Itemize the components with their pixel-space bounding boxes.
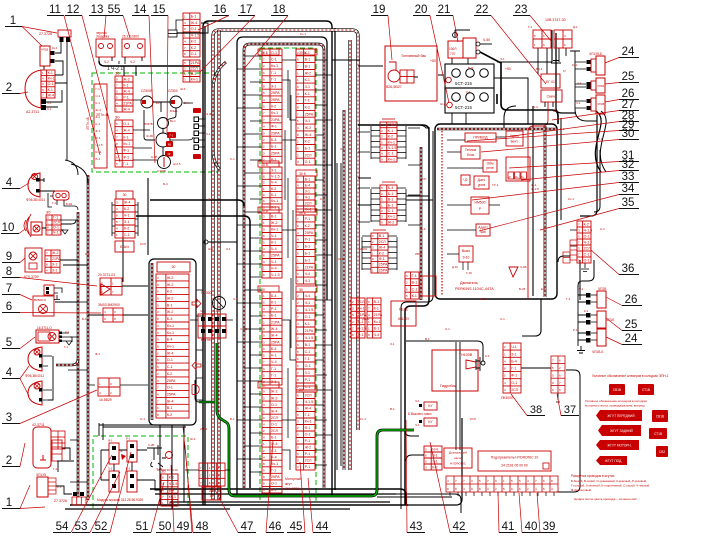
svg-text:Кч-1: Кч-1	[388, 140, 395, 144]
svg-text:О-1: О-1	[584, 234, 590, 238]
svg-text:З-1: З-1	[305, 189, 310, 193]
svg-text:Р-1: Р-1	[305, 439, 311, 443]
svg-text:25РА: 25РА	[305, 112, 314, 116]
svg-text:30: 30	[172, 265, 176, 269]
svg-text:Г-1: Г-1	[53, 216, 58, 220]
svg-text:366.3723: 366.3723	[285, 487, 299, 491]
svg-text:В-1: В-1	[305, 58, 311, 62]
svg-text:406-ОУ: 406-ОУ	[398, 317, 410, 321]
svg-text:Ч-1: Ч-1	[200, 309, 205, 313]
svg-text:30: 30	[622, 128, 635, 140]
svg-text:К-1: К-1	[48, 88, 53, 92]
svg-text:14: 14	[134, 4, 147, 16]
svg-text:21РА: 21РА	[362, 317, 369, 321]
svg-text:К-2: К-2	[432, 465, 437, 469]
svg-text:Ж-2: Ж-2	[208, 247, 214, 251]
svg-text:30 5: 30 5	[261, 163, 268, 167]
svg-text:Ч-1.5: Ч-1.5	[388, 146, 397, 150]
svg-text:С-1: С-1	[388, 209, 394, 213]
svg-text:ФЭ6,3В/4011: ФЭ6,3В/4011	[25, 374, 44, 378]
svg-text:30: 30	[161, 469, 166, 474]
svg-text:Ж-2: Ж-2	[167, 310, 174, 314]
svg-text:Е-1: Е-1	[541, 287, 546, 291]
svg-text:18: 18	[273, 4, 286, 16]
svg-text:Ч-1.5: Ч-1.5	[305, 336, 314, 340]
svg-text:Ж-4: Ж-4	[167, 399, 174, 403]
svg-text:ФЭ6,3Б/4011: ФЭ6,3Б/4011	[26, 198, 45, 202]
svg-text:О-1: О-1	[305, 364, 311, 368]
svg-text:С-1: С-1	[412, 287, 418, 291]
svg-text:К-1: К-1	[96, 101, 101, 105]
svg-text:Ч-1.5: Ч-1.5	[169, 482, 178, 486]
svg-text:К-4: К-4	[466, 90, 471, 94]
svg-text:С-1: С-1	[124, 233, 130, 237]
svg-text:41: 41	[502, 521, 515, 533]
svg-text:В-1: В-1	[305, 65, 311, 69]
svg-text:О-1: О-1	[584, 258, 590, 262]
svg-text:В-1: В-1	[425, 337, 430, 341]
svg-text:О-1: О-1	[123, 122, 129, 126]
svg-text:Ж-4Б: Ж-4Б	[146, 134, 153, 138]
svg-text:Б-4: Б-4	[271, 138, 277, 142]
svg-text:В-1: В-1	[271, 215, 277, 219]
svg-text:30 6: 30 6	[261, 209, 268, 213]
svg-text:6: 6	[6, 301, 12, 313]
svg-text:Ж-2: Ж-2	[305, 126, 312, 130]
svg-text:А2.3711: А2.3711	[26, 110, 39, 114]
svg-text:23: 23	[515, 4, 528, 16]
svg-text:Ч-2: Ч-2	[104, 60, 109, 64]
svg-text:О-1: О-1	[271, 51, 277, 55]
svg-text:37: 37	[564, 404, 576, 416]
svg-text:Ч-1.5: Ч-1.5	[358, 327, 367, 331]
svg-text:К-2: К-2	[191, 46, 196, 50]
svg-text:Кч-1: Кч-1	[271, 64, 278, 68]
svg-text:Ж-2,5: Ж-2,5	[173, 162, 181, 166]
svg-text:О-1: О-1	[191, 52, 197, 56]
svg-text:30 5: 30 5	[299, 172, 306, 176]
svg-text:Г-1: Г-1	[53, 467, 58, 471]
svg-text:В-1: В-1	[271, 488, 277, 492]
svg-text:Ф-1: Ф-1	[271, 125, 277, 129]
svg-text:Ж-4: Ж-4	[305, 407, 312, 411]
svg-text:Г-1: Г-1	[52, 201, 56, 205]
svg-text:Б-1: Б-1	[305, 245, 311, 249]
svg-text:33: 33	[622, 171, 635, 183]
svg-text:К-1: К-1	[584, 309, 589, 313]
svg-text:Б-1: Б-1	[82, 317, 87, 321]
svg-text:Кч-1: Кч-1	[271, 111, 278, 115]
svg-text:Цифра после цвета провода— сеч: Цифра после цвета провода— сечение мм²	[574, 497, 637, 501]
svg-text:З-1: З-1	[305, 85, 310, 89]
svg-text:ПС300: ПС300	[201, 291, 212, 295]
svg-text:О-1: О-1	[167, 358, 173, 362]
svg-text:ТН100В: ТН100В	[459, 353, 473, 357]
svg-text:Ж-4: Ж-4	[379, 246, 386, 250]
svg-text:2СЛ: 2СЛ	[191, 67, 198, 71]
svg-text:З-1: З-1	[271, 168, 276, 172]
svg-text:В-1: В-1	[191, 72, 197, 76]
svg-text:1: 1	[10, 15, 16, 27]
svg-text:Ч-1: Ч-1	[415, 423, 420, 427]
svg-text:Ф-1: Ф-1	[379, 257, 385, 261]
svg-text:1Р: 1Р	[167, 152, 170, 156]
svg-text:Ч-4: Ч-4	[305, 294, 311, 298]
svg-text:Ч-1: Ч-1	[271, 260, 277, 264]
svg-text:21РА: 21РА	[374, 313, 383, 317]
svg-text:24: 24	[622, 46, 635, 58]
svg-text:Б-4: Б-4	[271, 294, 277, 298]
svg-text:25РА: 25РА	[271, 91, 280, 95]
svg-text:Ж-4: Ж-4	[271, 442, 278, 446]
svg-text:Ч-0Б: Ч-0Б	[520, 265, 527, 269]
svg-text:25РА: 25РА	[388, 123, 397, 127]
svg-text:Д-1: Д-1	[573, 25, 578, 29]
svg-text:СЛ300: СЛ300	[168, 89, 178, 93]
svg-text:Ж-4: Ж-4	[96, 108, 102, 112]
svg-text:ЖГУТ ПОД.: ЖГУТ ПОД.	[605, 459, 622, 463]
svg-text:16: 16	[214, 4, 227, 16]
svg-text:Р-1: Р-1	[305, 217, 311, 221]
svg-text:БГ 01: БГ 01	[546, 80, 555, 84]
svg-text:К-2: К-2	[167, 372, 172, 376]
svg-text:Г-1: Г-1	[305, 413, 310, 417]
svg-text:В-1: В-1	[167, 406, 173, 410]
svg-text:Ч-1: Ч-1	[124, 214, 130, 218]
svg-text:Ч-1.5: Ч-1.5	[53, 231, 62, 235]
svg-text:СЛ300Р: СЛ300Р	[141, 89, 153, 93]
svg-text:Ч-1.5: Ч-1.5	[271, 175, 280, 179]
svg-text:Ф-1: Ф-1	[95, 352, 100, 356]
svg-text:Ж-4: Ж-4	[271, 409, 278, 413]
svg-text:К-1: К-1	[305, 92, 310, 96]
svg-text:satl: satl	[480, 230, 486, 234]
svg-text:Ч-2: Ч-2	[130, 60, 135, 64]
svg-text:Г-1: Г-1	[123, 162, 128, 166]
svg-text:Кч-1: Кч-1	[167, 345, 174, 349]
svg-text:47: 47	[241, 521, 254, 533]
svg-text:25: 25	[625, 319, 638, 331]
svg-text:З-1: З-1	[108, 467, 113, 471]
svg-text:4: 4	[6, 367, 13, 379]
svg-text:Ч-4: Ч-4	[432, 447, 438, 451]
svg-text:9: 9	[6, 251, 12, 263]
svg-text:Кч-1: Кч-1	[388, 157, 395, 161]
svg-text:СВ1В: СВ1В	[613, 388, 621, 392]
svg-text:Кч-1: Кч-1	[358, 307, 365, 311]
svg-text:К-2: К-2	[85, 252, 90, 256]
svg-text:2СЛ: 2СЛ	[358, 300, 365, 304]
svg-text:Ж-2: Ж-2	[271, 390, 278, 394]
svg-text:Б-Д: Б-Д	[468, 66, 473, 70]
svg-text:2СЛ: 2СЛ	[305, 394, 312, 398]
svg-text:О-1: О-1	[47, 107, 52, 111]
svg-text:З-1: З-1	[52, 263, 57, 267]
svg-text:З-1: З-1	[340, 147, 345, 151]
svg-text:53: 53	[75, 521, 88, 533]
svg-text:Ж-2: Ж-2	[440, 102, 446, 106]
svg-text:Б-4: Б-4	[167, 338, 173, 342]
svg-text:Двигатель: Двигатель	[460, 281, 478, 285]
svg-text:30: 30	[299, 388, 303, 392]
svg-text:С-1: С-1	[445, 327, 450, 331]
svg-text:Ф-фиолетовый: Ф-фиолетовый	[571, 488, 591, 492]
svg-text:К-2: К-2	[320, 197, 325, 201]
svg-text:22: 22	[476, 4, 489, 16]
svg-text:26.3710300: 26.3710300	[122, 35, 139, 39]
svg-text:Кч-1: Кч-1	[167, 331, 174, 335]
svg-text:К-2: К-2	[167, 290, 172, 294]
svg-text:34: 34	[622, 183, 635, 195]
svg-text:42: 42	[453, 521, 466, 533]
svg-text:ВК508-О: ВК508-О	[34, 298, 47, 302]
svg-text:Б-1Б: Б-1Б	[66, 202, 72, 206]
svg-text:Ч-50: Ч-50	[483, 38, 490, 42]
svg-text:25РА: 25РА	[271, 131, 280, 135]
svg-text:35: 35	[622, 197, 635, 209]
svg-text:В-1: В-1	[305, 343, 311, 347]
svg-text:21: 21	[438, 4, 451, 16]
svg-text:Г-1: Г-1	[271, 71, 276, 75]
svg-text:Б-1: Б-1	[271, 436, 277, 440]
svg-text:ЧП1Б: ЧП1Б	[597, 84, 604, 88]
svg-text:Б-4: Б-4	[553, 109, 558, 113]
svg-text:Ж-4: Ж-4	[180, 87, 186, 91]
svg-text:Ч-1: Ч-1	[206, 132, 211, 136]
svg-text:К-1: К-1	[65, 330, 70, 334]
svg-text:К-2: К-2	[124, 227, 129, 231]
svg-text:ЗПТн-4Б: ЗПТн-4Б	[86, 117, 90, 130]
svg-text:Кч-1: Кч-1	[52, 46, 58, 50]
svg-text:ЧП1В: ЧП1В	[597, 102, 604, 106]
svg-text:Кч-1: Кч-1	[374, 320, 381, 324]
svg-text:Ч-1.5: Ч-1.5	[96, 143, 104, 147]
svg-text:З-1: З-1	[305, 371, 310, 375]
svg-text:Ж-4: Ж-4	[271, 327, 278, 331]
svg-text:Ж-4: Ж-4	[271, 334, 278, 338]
svg-text:25РА: 25РА	[271, 475, 280, 479]
svg-text:49: 49	[177, 521, 190, 533]
svg-text:Ф-1: Ф-1	[358, 333, 364, 337]
svg-text:25РА: 25РА	[415, 252, 422, 256]
svg-text:1Г: 1Г	[563, 69, 567, 73]
svg-text:2СЛ: 2СЛ	[53, 221, 60, 225]
svg-text:В-1: В-1	[271, 158, 277, 162]
svg-text:АВ: АВ	[209, 489, 214, 493]
svg-text:Р-1: Р-1	[305, 452, 311, 456]
svg-text:Ч-1.5: Ч-1.5	[584, 228, 593, 232]
svg-text:Г-1: Г-1	[271, 374, 276, 378]
svg-text:Кч-1: Кч-1	[48, 77, 55, 81]
svg-text:Кч-1: Кч-1	[305, 420, 312, 424]
svg-text:Ч-1: Ч-1	[233, 297, 238, 301]
svg-text:насос: насос	[454, 456, 463, 460]
svg-text:Б-4: Б-4	[388, 186, 394, 190]
svg-text:Б-4: Б-4	[271, 347, 277, 351]
svg-text:Б-1: Б-1	[305, 258, 311, 262]
svg-text:25РА: 25РА	[167, 393, 176, 397]
svg-text:К-2: К-2	[191, 40, 196, 44]
svg-text:55: 55	[108, 4, 121, 16]
svg-text:Расцветка проводов в жгутах:: Расцветка проводов в жгутах:	[571, 474, 615, 478]
svg-text:16.3711-О: 16.3711-О	[37, 326, 52, 330]
svg-text:25РА: 25РА	[379, 263, 388, 267]
svg-text:10В.3747-30: 10В.3747-30	[545, 18, 566, 22]
svg-text:26: 26	[625, 294, 638, 306]
svg-text:О-1: О-1	[53, 226, 59, 230]
svg-text:Г-1: Г-1	[528, 25, 533, 29]
svg-text:Г-1: Г-1	[511, 367, 516, 371]
svg-text:К-2: К-2	[124, 207, 129, 211]
svg-text:РЕЛЕ: РЕЛЕ	[399, 308, 409, 312]
svg-text:44: 44	[316, 521, 329, 533]
svg-text:Ч-1: Ч-1	[305, 301, 311, 305]
svg-text:блок: блок	[467, 153, 475, 157]
svg-text:Кч-1: Кч-1	[123, 142, 130, 146]
svg-text:52: 52	[95, 521, 108, 533]
svg-text:В-1: В-1	[379, 234, 385, 238]
svg-text:К-2: К-2	[167, 413, 172, 417]
svg-text:Ж-2: Ж-2	[305, 446, 312, 450]
svg-text:Ж-2: Ж-2	[305, 71, 312, 75]
svg-text:Ч-1: Ч-1	[576, 101, 581, 105]
svg-text:Ж-2: Ж-2	[52, 251, 59, 255]
svg-text:О-1: О-1	[305, 433, 311, 437]
svg-text:К-1: К-1	[96, 122, 101, 126]
svg-text:О-1: О-1	[305, 315, 311, 319]
svg-text:9,370В: 9,370В	[157, 169, 166, 173]
svg-text:25РА: 25РА	[200, 427, 207, 431]
svg-text:К-1: К-1	[123, 83, 128, 87]
svg-text:Ж-4: Ж-4	[123, 89, 130, 93]
svg-text:Ч-1: Ч-1	[305, 119, 311, 123]
svg-text:ЧП1У5: ЧП1У5	[36, 473, 46, 477]
svg-text:В26,5В27: В26,5В27	[386, 85, 402, 89]
svg-text:Б.1кЧ: Б.1кЧ	[120, 245, 129, 249]
svg-text:Ф-1: Ф-1	[123, 155, 129, 159]
svg-text:46: 46	[269, 521, 282, 533]
svg-text:К-1: К-1	[123, 135, 128, 139]
svg-text:К-2: К-2	[305, 140, 310, 144]
svg-text:30: 30	[299, 288, 303, 292]
svg-text:2: 2	[6, 455, 12, 467]
svg-text:Б-1: Б-1	[271, 145, 277, 149]
svg-text:100Л: 100Л	[449, 47, 456, 51]
svg-text:Ч-1.5: Ч-1.5	[240, 327, 248, 331]
svg-text:Ч-1: Ч-1	[305, 195, 311, 199]
svg-text:Ч-1: Ч-1	[415, 399, 420, 403]
svg-text:ЧП1В-Б: ЧП1В-Б	[592, 350, 603, 354]
svg-text:Г-1: Г-1	[271, 367, 276, 371]
svg-text:Дозирующий: Дозирующий	[449, 451, 467, 455]
svg-text:Вч-1: Вч-1	[170, 119, 176, 123]
svg-text:21РА: 21РА	[305, 265, 314, 269]
svg-text:Кч-1: Кч-1	[388, 215, 395, 219]
svg-text:Ф-1: Ф-1	[305, 426, 311, 430]
svg-text:Г-1: Г-1	[412, 274, 417, 278]
svg-text:Ж-2: Ж-2	[167, 276, 174, 280]
svg-text:З-1: З-1	[208, 197, 213, 201]
svg-text:7З7: 7З7	[450, 52, 456, 56]
svg-text:25РА: 25РА	[167, 379, 176, 383]
svg-text:Ж-4: Ж-4	[123, 107, 130, 111]
svg-text:Г-1: Г-1	[566, 297, 571, 301]
svg-text:Б-4: Б-4	[533, 105, 538, 109]
svg-text:Б-1: Б-1	[305, 252, 311, 256]
svg-text:Ч-1: Ч-1	[271, 234, 277, 238]
svg-text:Кч-1: Кч-1	[191, 78, 198, 82]
svg-text:Р-1: Р-1	[213, 309, 218, 313]
svg-text:С-2Б: С-2Б	[148, 443, 155, 447]
svg-text:2: 2	[6, 82, 12, 94]
svg-text:ВЛ37В: ВЛ37В	[144, 122, 153, 126]
svg-text:жгут: жгут	[285, 482, 292, 486]
svg-text:Ч-4: Ч-4	[305, 272, 311, 276]
svg-text:5: 5	[6, 337, 12, 349]
svg-text:Г-1: Г-1	[271, 78, 276, 82]
svg-text:24 2161 05 00 00: 24 2161 05 00 00	[501, 463, 528, 467]
svg-text:Ф-1: Ф-1	[108, 439, 113, 443]
svg-text:Р-1: Р-1	[305, 465, 311, 469]
svg-text:Ж-4: Ж-4	[123, 129, 130, 133]
svg-text:Р-1: Р-1	[305, 238, 311, 242]
svg-text:К-2: К-2	[271, 105, 276, 109]
svg-text:К-1: К-1	[485, 354, 490, 358]
svg-text:Б-4: Б-4	[305, 183, 311, 187]
svg-text:12: 12	[67, 4, 80, 16]
svg-text:Б+: Б+	[521, 175, 525, 179]
svg-text:ЖГУТ ПЕРЕДНИЙ: ЖГУТ ПЕРЕДНИЙ	[607, 414, 635, 418]
svg-text:Модуль музыки 313.28-96.9320: Модуль музыки 313.28-96.9320	[97, 498, 143, 502]
svg-text:Г-1: Г-1	[64, 345, 68, 349]
svg-text:Б-4: Б-4	[163, 182, 168, 186]
svg-text:21РА: 21РА	[360, 247, 367, 251]
svg-text:Гидробак: Гидробак	[440, 384, 457, 388]
svg-text:С-1: С-1	[96, 94, 101, 98]
svg-text:16.5В29: 16.5В29	[99, 398, 112, 402]
svg-text:Ж-4: Ж-4	[190, 437, 196, 441]
svg-text:ПК300Л: ПК300Л	[501, 396, 513, 400]
svg-text:вент.: вент.	[511, 140, 519, 144]
svg-text:Выкл: Выкл	[462, 249, 470, 253]
svg-text:2СЛ: 2СЛ	[140, 242, 146, 246]
svg-text:21РА: 21РА	[191, 61, 200, 65]
svg-text:Ч-1: Ч-1	[511, 345, 517, 349]
svg-text:2СЛ: 2СЛ	[584, 246, 591, 250]
svg-text:К-1: К-1	[271, 300, 276, 304]
svg-text:Б-1: Б-1	[388, 192, 394, 196]
svg-text:Ч-1: Ч-1	[305, 279, 311, 283]
svg-text:Ж-4: Ж-4	[420, 227, 426, 231]
svg-text:СТ1В: СТ1В	[642, 388, 650, 392]
svg-text:Ф-1: Ф-1	[96, 129, 101, 133]
svg-text:Ж-2: Ж-2	[388, 220, 395, 224]
svg-text:К-2: К-2	[379, 251, 384, 255]
svg-text:Ч-4: Ч-4	[374, 333, 380, 337]
svg-text:ЗПТн-4Б: ЗПТн-4Б	[96, 113, 109, 117]
svg-text:К-1: К-1	[271, 241, 276, 245]
svg-text:К-1: К-1	[412, 294, 417, 298]
svg-text:Условное обозначение штекеров: Условное обозначение штекеров в колодках	[585, 399, 648, 403]
svg-text:К-1: К-1	[388, 129, 393, 133]
svg-text:21РА: 21РА	[271, 320, 280, 324]
svg-text:20: 20	[415, 4, 428, 16]
svg-text:Свеча: Свеча	[547, 95, 557, 99]
svg-text:38: 38	[530, 404, 542, 416]
svg-text:ЗМ03.5М2900: ЗМ03.5М2900	[98, 303, 120, 307]
svg-text:Обм: Обм	[487, 162, 495, 166]
svg-text:О-1: О-1	[191, 27, 197, 31]
